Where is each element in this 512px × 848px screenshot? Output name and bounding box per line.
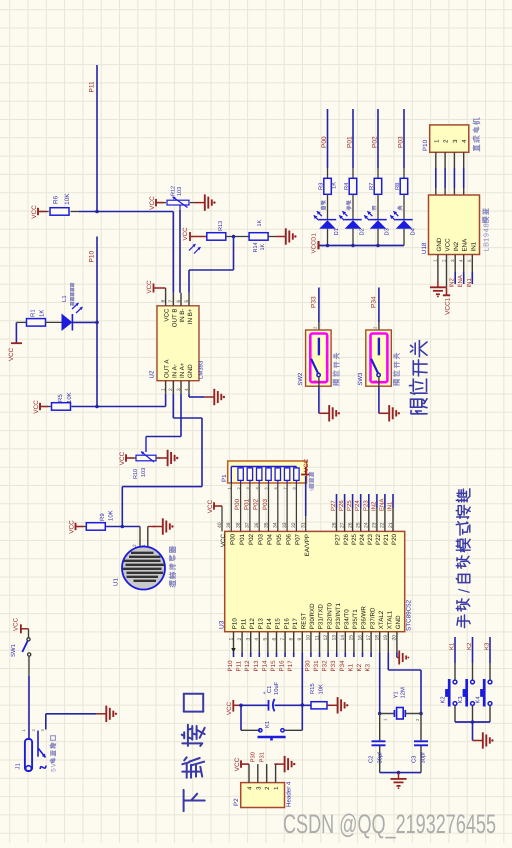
svg-text:10K: 10K	[66, 392, 73, 403]
svg-text:SW3: SW3	[357, 372, 364, 386]
svg-text:P07: P07	[295, 533, 302, 545]
svg-text:P00: P00	[230, 533, 237, 545]
svg-text:5: 5	[467, 259, 472, 262]
svg-text:R1: R1	[30, 309, 37, 317]
svg-text:K4: K4	[476, 696, 482, 704]
svg-text:VCC: VCC	[234, 757, 241, 771]
svg-text:P13: P13	[258, 618, 265, 630]
svg-text:P11: P11	[236, 660, 243, 671]
svg-text:U2: U2	[149, 370, 156, 378]
svg-text:VCC: VCC	[220, 533, 227, 547]
svg-text:R14: R14	[253, 242, 259, 252]
svg-text:IN2: IN2	[370, 501, 377, 511]
svg-text:ENA: ENA	[457, 275, 464, 287]
svg-text:10K: 10K	[108, 510, 115, 521]
svg-text:P03: P03	[257, 533, 264, 545]
svg-text:P32: P32	[322, 660, 329, 672]
svg-text:R12: R12	[171, 186, 177, 196]
svg-text:VCC: VCC	[69, 520, 76, 534]
svg-text:OUT A: OUT A	[164, 359, 171, 378]
svg-text:P31/TXD: P31/TXD	[318, 604, 325, 630]
svg-text:Header 4: Header 4	[286, 781, 293, 807]
svg-text:P30/RXD: P30/RXD	[309, 603, 316, 629]
svg-text:3: 3	[450, 259, 455, 262]
svg-text:K1: K1	[265, 721, 271, 728]
svg-text:103: 103	[177, 187, 183, 196]
svg-text:P03: P03	[262, 498, 269, 510]
svg-text:IN A-: IN A-	[171, 364, 178, 378]
svg-text:IN B+: IN B+	[187, 308, 194, 324]
svg-text:4: 4	[481, 228, 490, 232]
svg-text:P33: P33	[330, 660, 337, 672]
svg-text:P34/T0: P34/T0	[344, 609, 351, 630]
svg-text:SW1: SW1	[10, 643, 17, 657]
svg-text:P34: P34	[339, 660, 346, 672]
svg-text:P27: P27	[335, 533, 342, 545]
svg-text:P14: P14	[261, 660, 268, 672]
svg-text:P10: P10	[232, 618, 239, 630]
svg-text:K1: K1	[347, 663, 354, 671]
svg-text:STC89C52: STC89C52	[406, 599, 413, 631]
svg-text:9: 9	[481, 233, 490, 237]
svg-text:REST: REST	[301, 612, 308, 629]
svg-text:P00: P00	[234, 498, 241, 510]
svg-text:R10: R10	[133, 469, 139, 479]
svg-text:P30: P30	[250, 752, 257, 762]
svg-text:5: 5	[51, 768, 58, 772]
svg-text:30pf: 30pf	[377, 752, 384, 764]
svg-text:R4: R4	[344, 182, 350, 190]
svg-text:P12: P12	[249, 618, 256, 630]
svg-text:P25: P25	[346, 500, 353, 511]
svg-text:VCC: VCC	[31, 205, 38, 219]
svg-text:P11: P11	[240, 618, 247, 629]
svg-text:P15: P15	[275, 618, 282, 630]
svg-text:VCC1: VCC1	[445, 297, 452, 314]
svg-text:P2: P2	[233, 798, 240, 806]
svg-text:R3: R3	[318, 183, 325, 190]
svg-text:C3: C3	[411, 756, 418, 763]
svg-text:P26: P26	[343, 533, 350, 545]
svg-text:P06: P06	[285, 533, 292, 545]
svg-text:L: L	[481, 248, 490, 252]
svg-text:P02: P02	[248, 533, 255, 545]
svg-text:R9: R9	[99, 513, 106, 521]
svg-text:K3: K3	[457, 696, 464, 703]
svg-text:K2: K2	[440, 696, 447, 703]
svg-text:P01: P01	[243, 498, 250, 510]
svg-text:P32/INT0: P32/INT0	[326, 603, 333, 630]
svg-text:P27: P27	[330, 500, 337, 511]
svg-text:1K: 1K	[257, 219, 263, 226]
svg-text:IN A+: IN A+	[179, 362, 186, 378]
svg-text:R6: R6	[53, 195, 60, 204]
svg-text:XTAL2: XTAL2	[378, 610, 385, 629]
svg-text:VCC: VCC	[13, 617, 20, 631]
svg-text:2: 2	[168, 388, 174, 391]
svg-text:C1: C1	[266, 686, 273, 693]
svg-text:VCC: VCC	[207, 499, 214, 513]
svg-text:P36/WR: P36/WR	[361, 606, 368, 630]
svg-text:VCC: VCC	[164, 308, 171, 322]
svg-text:1K: 1K	[260, 243, 266, 250]
svg-text:D1: D1	[334, 228, 340, 235]
svg-text:P02: P02	[372, 136, 379, 148]
svg-text:10K: 10K	[318, 684, 325, 694]
svg-text:VCC: VCC	[445, 238, 452, 252]
svg-text:Y1: Y1	[394, 691, 400, 698]
svg-text:1: 1	[481, 238, 490, 242]
svg-text:IN1: IN1	[466, 278, 473, 288]
svg-text:P25: P25	[351, 533, 358, 545]
svg-text:P15: P15	[270, 660, 277, 672]
svg-text:P35/T1: P35/T1	[352, 609, 359, 630]
svg-text:VCC: VCC	[303, 458, 310, 472]
svg-text:P16: P16	[279, 660, 286, 672]
svg-text:P05: P05	[276, 533, 283, 545]
svg-text:P26: P26	[338, 500, 345, 511]
svg-text:K2: K2	[356, 663, 363, 671]
svg-text:CSDN @QQ_2193276455: CSDN @QQ_2193276455	[283, 809, 496, 839]
svg-text:P17: P17	[292, 618, 299, 630]
svg-text:1K: 1K	[332, 182, 338, 189]
svg-text:U3: U3	[219, 620, 226, 629]
svg-text:P31: P31	[313, 660, 320, 672]
svg-text:P20: P20	[391, 533, 398, 545]
svg-text:VCC: VCC	[33, 400, 40, 414]
svg-text:V: V	[51, 762, 58, 767]
svg-text:2: 2	[441, 259, 446, 262]
svg-text:K3: K3	[365, 663, 372, 671]
svg-text:6: 6	[176, 300, 182, 303]
svg-text:10K: 10K	[64, 193, 71, 205]
svg-text:K3: K3	[484, 642, 491, 650]
svg-text:8: 8	[160, 300, 166, 303]
svg-text:GND: GND	[395, 615, 402, 629]
svg-text:ENA: ENA	[462, 238, 469, 252]
svg-text:P02: P02	[253, 498, 260, 510]
svg-text:VCC: VCC	[119, 451, 126, 465]
svg-text:VCC: VCC	[182, 227, 189, 241]
svg-text:IN2: IN2	[453, 241, 460, 251]
svg-text:U1: U1	[113, 578, 120, 586]
svg-text:P23: P23	[367, 533, 374, 545]
svg-text:7: 7	[168, 300, 174, 303]
svg-text:P1: P1	[221, 474, 228, 482]
svg-text:R8: R8	[394, 183, 401, 190]
svg-text:30pf: 30pf	[420, 752, 427, 764]
svg-text:SW2: SW2	[297, 372, 304, 386]
svg-text:IN1: IN1	[470, 241, 477, 251]
svg-text:EA/VPP: EA/VPP	[304, 534, 311, 556]
svg-text:P00: P00	[321, 136, 328, 148]
svg-text:IN1: IN1	[387, 501, 394, 511]
svg-text:1: 1	[433, 259, 438, 262]
svg-text:VCC: VCC	[146, 280, 153, 294]
svg-text:D3: D3	[384, 228, 391, 235]
svg-text:12M: 12M	[400, 687, 407, 698]
svg-text:5: 5	[184, 300, 190, 303]
svg-text:IN B-: IN B-	[179, 309, 186, 323]
svg-text:LM393: LM393	[198, 360, 205, 379]
svg-text:P12: P12	[244, 660, 251, 672]
svg-text:P14: P14	[266, 618, 273, 630]
svg-text:J1: J1	[15, 763, 22, 770]
svg-text:P37/RD: P37/RD	[369, 607, 376, 629]
svg-text:1: 1	[160, 388, 166, 391]
svg-text:VCCD1: VCCD1	[311, 232, 318, 253]
svg-text:P01: P01	[347, 136, 354, 148]
svg-text:VCC: VCC	[149, 196, 156, 210]
svg-text:L1: L1	[61, 295, 68, 302]
svg-text:P03: P03	[398, 136, 405, 148]
svg-text:C2: C2	[368, 756, 375, 763]
svg-text:U18: U18	[421, 242, 428, 254]
svg-text:GND: GND	[436, 237, 443, 251]
svg-text:XTAL1: XTAL1	[387, 610, 394, 629]
svg-text:P21: P21	[383, 533, 390, 545]
svg-text:IN2: IN2	[449, 278, 456, 288]
svg-text:3: 3	[176, 388, 182, 391]
svg-text:10uF: 10uF	[273, 681, 280, 695]
svg-text:P11: P11	[89, 81, 96, 92]
svg-text:R5: R5	[57, 394, 64, 402]
svg-text:P17: P17	[287, 660, 294, 672]
svg-text:VCC: VCC	[8, 347, 15, 361]
svg-text:P04: P04	[267, 533, 274, 545]
svg-text:ENA: ENA	[378, 499, 385, 511]
svg-text:8: 8	[481, 223, 490, 227]
svg-text:P34: P34	[370, 296, 377, 308]
svg-text:P24: P24	[354, 500, 361, 511]
svg-text:P01: P01	[239, 533, 246, 545]
svg-text:P30: P30	[304, 660, 311, 672]
svg-text:K1: K1	[449, 642, 456, 650]
svg-text:P22: P22	[375, 533, 382, 545]
svg-text:P10: P10	[89, 251, 96, 263]
svg-text:1K: 1K	[39, 310, 46, 317]
svg-text:P10: P10	[422, 139, 429, 151]
svg-text:P24: P24	[359, 533, 366, 545]
svg-text:103: 103	[141, 468, 147, 477]
svg-text:K2: K2	[466, 642, 473, 650]
svg-text:VCC: VCC	[226, 701, 233, 715]
svg-text:D4: D4	[411, 227, 417, 235]
svg-text:P31: P31	[258, 752, 265, 762]
svg-text:P23: P23	[362, 500, 369, 511]
svg-text:GND: GND	[187, 364, 194, 378]
svg-text:P13: P13	[253, 660, 260, 672]
svg-text:R13: R13	[218, 221, 224, 231]
svg-text:P33/INT1: P33/INT1	[335, 603, 342, 630]
svg-text:D2: D2	[359, 228, 366, 235]
svg-text:/: /	[457, 588, 474, 593]
svg-text:P10: P10	[227, 660, 234, 672]
svg-text:P16: P16	[283, 618, 290, 630]
svg-text:4: 4	[184, 388, 190, 391]
svg-text:P33: P33	[310, 296, 317, 308]
svg-text:R15: R15	[310, 683, 316, 694]
svg-text:OUT B: OUT B	[171, 309, 178, 328]
svg-text:R7: R7	[369, 183, 375, 190]
svg-text:4: 4	[459, 259, 464, 262]
